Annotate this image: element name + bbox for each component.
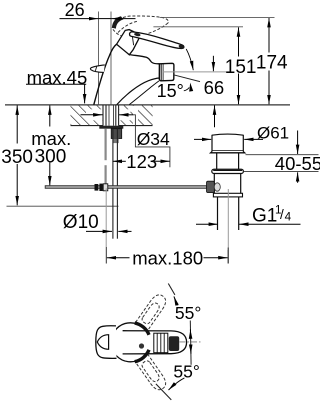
dashed swivel lever upper [130,292,169,339]
pop-up linkage horizontal rod [45,186,206,189]
pop-up rod vertical [104,129,106,161]
svg-text:Ø34: Ø34 [137,129,170,149]
drain side port knob [207,181,215,192]
swivel joint dark arc top [135,323,149,335]
svg-text:4: 4 [285,210,292,223]
svg-text:max.180: max.180 [132,247,203,268]
lever detail rect [154,333,168,353]
swivel joint dark arc bottom [135,350,149,362]
15 degree lower arc arrow [184,88,189,91]
svg-text:Ø61: Ø61 [257,124,289,143]
svg-text:151: 151 [225,57,257,78]
top view dome circle [111,323,150,362]
dimension max.180 [107,257,228,259]
drain centerline [227,189,229,250]
drain seal ring [212,169,244,173]
shank through deck [106,105,116,126]
washer below deck [99,126,123,129]
svg-text:174: 174 [256,53,288,74]
max.45 leader [26,83,86,85]
dimension G1 1/4 arrows [196,223,301,225]
dimension 174 line [268,18,270,104]
deck top surface line [5,104,290,106]
drain body [214,174,240,194]
dimension max.300 line [49,106,51,186]
dimension 40-55 arrows [297,131,299,183]
faucet spout top edge [129,55,159,64]
deck hole right edge [118,105,120,126]
svg-text:Ø10: Ø10 [63,212,99,233]
svg-text:123: 123 [126,151,157,172]
dimension diam10 arrows [86,230,132,232]
aerator outlet ref line [163,71,231,73]
white halo over hatch for dim arrows [86,109,103,120]
drain rim band [213,193,242,197]
pop-up waste drain cap [211,134,245,153]
pivot blob [139,343,144,348]
dimension arrows diam34 [81,114,134,116]
55deg lower tick [156,384,171,400]
deck hole left edge [102,105,104,126]
deck bottom line right [119,125,153,127]
svg-text:15°: 15° [157,81,184,101]
dimension 26 lines and arrows [60,18,136,20]
faucet spout underside inner arc [129,81,159,105]
drain neck [217,153,239,169]
dimension 151 extension line [153,26,243,28]
rear cone detail [97,335,108,350]
dimension 174 extension line [160,16,275,18]
supply pipe [112,129,114,239]
dimension 26 extension line left [98,12,100,105]
dimension 350 line [16,106,18,206]
svg-text:350: 350 [1,147,33,168]
deck bottom line left [71,125,104,127]
deck hatched section left [71,105,104,126]
svg-text:G1: G1 [252,206,277,227]
faucet lever [130,32,184,49]
nut lower part [113,139,119,144]
dimension 350 bottom extension [7,205,119,207]
dimension diam61 [194,138,263,140]
dimension 151 line [238,27,240,104]
max.180 right extension [227,248,229,264]
top view lever [123,331,187,354]
leader diam34 [133,115,170,168]
svg-text:300: 300 [35,146,67,167]
svg-text:66: 66 [204,77,225,98]
lever front oval [134,32,141,36]
dimension 123 [113,160,170,162]
faucet spout underside outer arc [117,78,160,105]
rod lower extension [105,188,107,247]
15 degree upper arc arrow [186,49,193,70]
svg-text:55°: 55° [173,362,199,382]
faucet raised lever dark tip [112,16,124,28]
svg-text:40-55: 40-55 [275,153,320,174]
15 degree sloped line [174,75,201,82]
55deg upper leader arrow [174,296,178,305]
dimension 40-55 extension lines [246,154,319,156]
deck hatched section right [119,105,153,126]
svg-text:55°: 55° [175,303,201,323]
55deg upper tick [168,284,175,295]
mounting nut [111,129,122,139]
dimension 66 arrows [213,56,214,127]
lever tip cap [178,44,184,49]
svg-text:/: / [280,207,284,222]
55deg lower leader arrow [169,378,185,390]
faucet raised lever dashed outline [112,16,168,37]
dimension 26 extension line right [110,12,112,105]
faucet pop-up knob rear [90,65,104,73]
top view rear body cap [96,326,117,359]
drain tailpipe [218,197,239,230]
centerline right [180,341,202,343]
dashed swivel lever lower [130,345,169,392]
aerator housing [159,63,174,81]
faucet body back edge [94,44,117,104]
lever dark grip [169,336,179,351]
linkage couplers [95,184,99,191]
55deg arc line right [189,321,192,365]
faucet cartridge dome [117,30,141,55]
svg-text:26: 26 [65,0,85,20]
